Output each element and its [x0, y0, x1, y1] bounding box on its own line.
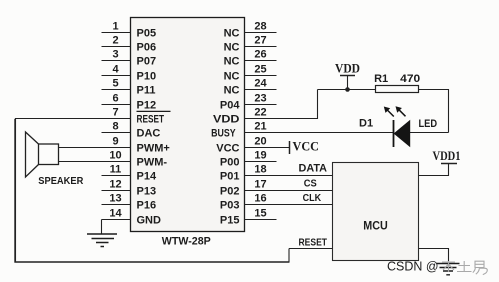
svg-text:P06: P06	[137, 42, 157, 54]
svg-text:14: 14	[109, 208, 122, 220]
svg-text:4: 4	[112, 64, 119, 76]
svg-text:470: 470	[400, 73, 420, 85]
svg-text:LED: LED	[419, 118, 438, 130]
svg-text:P03: P03	[220, 200, 240, 212]
svg-text:17: 17	[254, 179, 266, 191]
svg-text:NC: NC	[224, 42, 240, 54]
svg-text:R1: R1	[374, 73, 388, 85]
svg-text:P14: P14	[137, 171, 157, 183]
svg-text:GND: GND	[137, 215, 162, 227]
svg-text:P01: P01	[220, 171, 240, 183]
svg-text:10: 10	[109, 150, 121, 162]
svg-text:19: 19	[254, 150, 266, 162]
svg-text:P04: P04	[220, 100, 240, 112]
svg-text:9: 9	[112, 136, 118, 148]
svg-text:RESET: RESET	[137, 114, 165, 126]
svg-text:CLK: CLK	[303, 193, 322, 204]
svg-text:P00: P00	[220, 157, 240, 169]
svg-text:8: 8	[112, 121, 118, 133]
svg-text:NC: NC	[224, 56, 240, 68]
svg-text:VDD: VDD	[213, 114, 240, 126]
svg-text:SPEAKER: SPEAKER	[38, 176, 84, 187]
svg-text:3: 3	[112, 49, 118, 61]
svg-text:NC: NC	[224, 71, 240, 83]
svg-text:P02: P02	[220, 186, 240, 198]
svg-text:6: 6	[112, 93, 118, 105]
svg-text:PWM-: PWM-	[137, 157, 168, 169]
svg-text:28: 28	[254, 21, 266, 33]
svg-text:5: 5	[112, 78, 118, 90]
svg-text:WTW-28P: WTW-28P	[162, 236, 211, 248]
svg-text:P05: P05	[137, 28, 157, 40]
svg-text:21: 21	[254, 121, 266, 133]
svg-text:26: 26	[254, 49, 266, 61]
svg-text:PWM+: PWM+	[137, 143, 170, 155]
svg-text:P13: P13	[137, 186, 157, 198]
svg-text:VCC: VCC	[216, 143, 239, 155]
svg-text:P10: P10	[137, 71, 157, 83]
svg-text:7: 7	[112, 107, 118, 119]
svg-text:NC: NC	[224, 28, 240, 40]
svg-text:MCU: MCU	[363, 221, 388, 233]
svg-text:VDD1: VDD1	[433, 149, 461, 163]
svg-text:15: 15	[254, 208, 266, 220]
svg-text:12: 12	[109, 179, 121, 191]
svg-text:NC: NC	[224, 85, 240, 97]
svg-text:P12: P12	[137, 100, 157, 112]
svg-text:25: 25	[254, 64, 266, 76]
svg-text:DATA: DATA	[299, 163, 328, 175]
svg-text:DAC: DAC	[137, 128, 161, 140]
svg-text:11: 11	[110, 164, 122, 176]
svg-text:RESET: RESET	[299, 237, 328, 248]
svg-text:18: 18	[254, 164, 266, 176]
svg-text:22: 22	[254, 107, 266, 119]
svg-text:23: 23	[254, 93, 266, 105]
svg-text:VCC: VCC	[293, 138, 320, 153]
svg-text:P16: P16	[137, 200, 157, 212]
svg-text:D1: D1	[359, 117, 373, 129]
svg-text:24: 24	[254, 78, 267, 90]
svg-text:27: 27	[254, 35, 266, 47]
svg-text:20: 20	[254, 136, 266, 148]
svg-text:CSDN @: CSDN @	[387, 259, 439, 273]
svg-text:16: 16	[254, 193, 266, 205]
svg-text:2: 2	[112, 35, 118, 47]
svg-text:13: 13	[109, 193, 121, 205]
svg-text:BUSY: BUSY	[211, 128, 236, 140]
svg-text:P15: P15	[220, 215, 240, 227]
svg-text:CS: CS	[304, 178, 317, 189]
svg-text:P11: P11	[137, 85, 156, 97]
svg-text:VDD: VDD	[335, 62, 360, 76]
svg-text:1: 1	[112, 21, 118, 33]
svg-text:P07: P07	[137, 56, 157, 68]
